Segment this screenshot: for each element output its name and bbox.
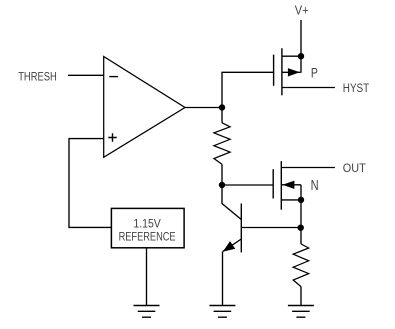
resistor R1 top lead bbox=[221, 108, 223, 123]
svg-text:REFERENCE: REFERENCE bbox=[119, 230, 176, 244]
op-amp plus sign bbox=[108, 133, 116, 141]
node B junction dot bbox=[298, 225, 304, 231]
node A junction dot bbox=[219, 182, 225, 188]
reference box U2 bbox=[111, 208, 184, 247]
transistor Q1 base wire to node B bbox=[241, 227, 300, 229]
transistor Q1 emitter line bbox=[223, 239, 242, 252]
resistor R2 top lead bbox=[300, 228, 302, 245]
wire THRESH to op-amp inverting input bbox=[68, 74, 104, 76]
PMOS Q2 channel bar bbox=[281, 48, 283, 95]
wire horizontal into reference box bbox=[68, 226, 111, 228]
svg-text:N: N bbox=[311, 178, 319, 194]
wire op-amp output bbox=[185, 107, 223, 109]
node V junction dot at PMOS source bbox=[298, 53, 304, 59]
PMOS Q2 body line with arrow bbox=[282, 71, 301, 73]
resistor R1 zigzag bbox=[214, 123, 230, 165]
resistor R2 zigzag bbox=[293, 244, 309, 287]
svg-text:1.15V: 1.15V bbox=[133, 216, 160, 230]
wire node T up bbox=[221, 72, 223, 107]
PMOS Q2 source-body vertical bbox=[300, 56, 302, 73]
svg-text:HYST: HYST bbox=[343, 81, 370, 95]
NMOS Q3 body arrowhead bbox=[283, 181, 295, 189]
ground G2 below emitter bbox=[209, 306, 235, 318]
NMOS Q3 source-body vertical bbox=[300, 185, 302, 200]
wire node A down to BJT collector bbox=[222, 185, 241, 220]
wire reference box to ground bbox=[146, 248, 148, 306]
PMOS Q2 body arrowhead bbox=[288, 68, 300, 76]
NMOS Q3 source line (bottom) bbox=[281, 199, 301, 201]
op-amp U1 bbox=[104, 57, 185, 158]
NMOS Q3 drain line to OUT bbox=[281, 167, 335, 169]
ground G1 below reference bbox=[134, 306, 160, 318]
node T junction dot at op-amp output bbox=[219, 104, 225, 110]
transistor Q1 base bar bbox=[240, 204, 242, 253]
wire V+ down to PMOS source bbox=[300, 20, 302, 56]
wire vertical from plus input down to reference bbox=[68, 138, 70, 227]
svg-text:OUT: OUT bbox=[343, 161, 366, 175]
wire to PMOS gate bbox=[221, 71, 273, 73]
svg-text:P: P bbox=[311, 66, 318, 81]
svg-text:V+: V+ bbox=[295, 3, 309, 18]
resistor R1 bottom lead bbox=[221, 164, 223, 185]
NMOS Q3 channel bar bbox=[280, 161, 282, 210]
wire plus input bbox=[69, 138, 104, 140]
resistor R2 bottom lead bbox=[300, 287, 302, 306]
NMOS Q3 gate bar bbox=[272, 169, 274, 198]
PMOS Q2 source line (top) bbox=[282, 55, 301, 57]
wire NMOS source down to node B bbox=[300, 200, 302, 228]
node S junction dot at NMOS source bbox=[298, 197, 304, 203]
op-amp minus sign bbox=[109, 76, 118, 78]
svg-text:THRESH: THRESH bbox=[18, 70, 57, 83]
PMOS Q2 gate bar bbox=[273, 55, 275, 86]
wire emitter to ground bbox=[222, 252, 224, 306]
NMOS Q3 body line with arrow bbox=[282, 184, 301, 186]
transistor Q1 emitter arrowhead bbox=[223, 241, 236, 252]
ground G3 below resistor R2 bbox=[288, 306, 314, 318]
PMOS Q2 drain line to HYST bbox=[282, 87, 335, 89]
wire node A to NMOS gate bbox=[222, 184, 273, 186]
